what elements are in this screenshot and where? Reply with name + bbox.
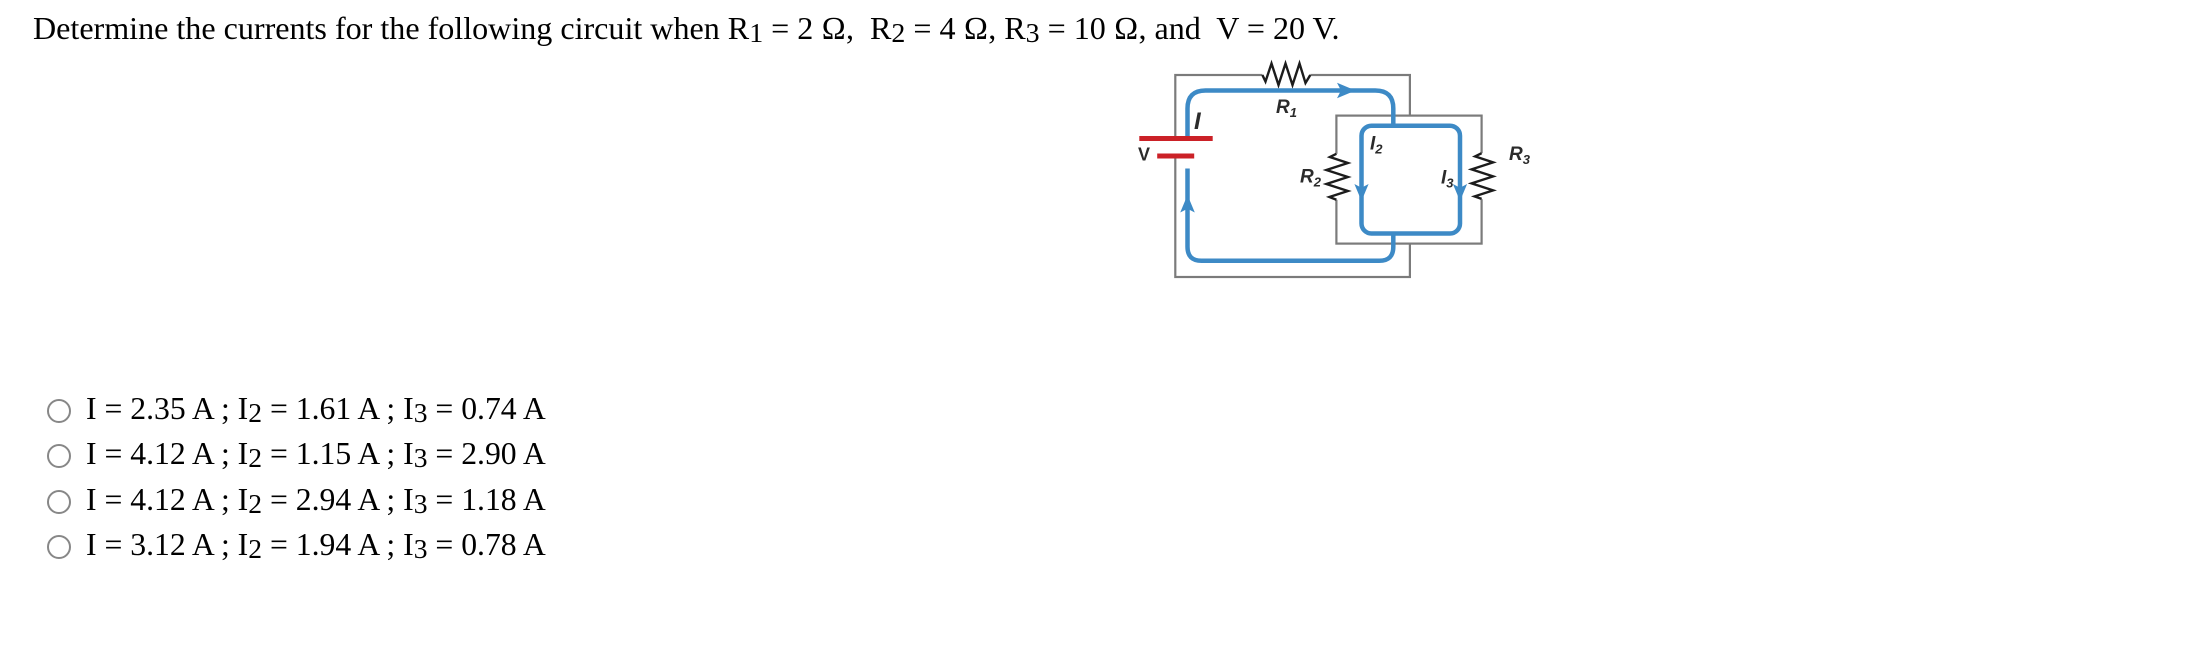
svg-text:R3: R3 <box>1509 144 1531 167</box>
svg-text:R2: R2 <box>1300 167 1322 190</box>
svg-text:I: I <box>1194 108 1202 135</box>
svg-text:V: V <box>1138 145 1150 165</box>
svg-text:R1: R1 <box>1276 97 1297 120</box>
